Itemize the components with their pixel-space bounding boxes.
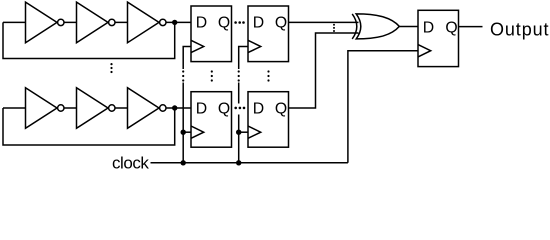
svg-text:Output: Output [490, 19, 549, 39]
inverter I5 [77, 88, 109, 129]
svg-text:D: D [423, 19, 434, 36]
svg-text:D: D [196, 15, 207, 32]
wire clock vertical 1 upper [183, 47, 191, 70]
wire clock main line [151, 162, 348, 164]
wire bottom-ring signal [3, 107, 191, 109]
xor gate U1 [352, 14, 357, 39]
wire clock vertical 2 upper [239, 47, 248, 70]
svg-text:Q: Q [218, 100, 230, 117]
svg-text:Q: Q [275, 15, 287, 32]
wire clock vertical 2 lower [238, 115, 240, 163]
ellipsis below FF1 [211, 70, 213, 72]
wire XOR output to FF5 D [399, 26, 418, 28]
ellipsis clock vertical 2 [238, 70, 240, 72]
svg-text:Q: Q [275, 100, 287, 117]
flip-flop FF5 box [418, 10, 459, 66]
svg-text:Q: Q [218, 15, 230, 32]
wire bottom-ring feedback [3, 108, 175, 145]
flip-flop FF3 box [191, 92, 232, 148]
clock wedge FF5 [418, 45, 431, 57]
wire top-ring signal [3, 21, 191, 23]
clock wedge FF2 [248, 40, 261, 52]
flip-flop FF2 box [248, 6, 289, 62]
svg-text:Q: Q [445, 19, 457, 36]
wire clock vertical 2 middle [238, 83, 240, 104]
junction dot clock stub FF3 [181, 130, 186, 135]
junction dot clock line 1 [181, 160, 186, 165]
wire top-ring feedback [3, 22, 175, 58]
junction dot top ring output [172, 20, 177, 25]
inverter I2 [77, 2, 109, 43]
junction dot clock line 2 [236, 160, 241, 165]
junction dot clock stub FF4 [236, 130, 241, 135]
wire clock vertical 1 lower [182, 83, 184, 163]
ellipsis top FF row [234, 21, 237, 24]
svg-text:D: D [253, 100, 264, 117]
wire FF2 Q to XOR top input [289, 21, 359, 23]
ellipsis clock vertical 1 [182, 70, 184, 72]
ellipsis below FF2 [267, 70, 269, 72]
flip-flop FF1 box [191, 6, 232, 62]
ellipsis between rings [110, 63, 112, 65]
svg-text:D: D [253, 15, 264, 32]
wire clock stub to FF4 [239, 131, 248, 133]
wire bottom FF4 Q to XOR bottom input [289, 33, 359, 108]
inverter I4 [26, 88, 58, 129]
svg-text:D: D [196, 100, 207, 117]
junction dot bottom ring output [172, 105, 177, 110]
clock wedge FF3 [191, 126, 204, 138]
flip-flop FF4 box [248, 92, 289, 148]
ellipsis bottom FF row [234, 107, 237, 110]
inverter I1 [26, 2, 58, 43]
inverter I6 [128, 88, 160, 129]
ellipsis XOR inputs [333, 24, 335, 26]
wire clock stub to FF3 [183, 131, 191, 133]
clock wedge FF1 [191, 40, 204, 52]
inverter I3 [128, 2, 160, 43]
svg-text:clock: clock [112, 153, 149, 172]
wire FF5 Q to Output [459, 26, 483, 28]
wire clock to FF5 [348, 51, 418, 163]
clock wedge FF4 [248, 126, 261, 138]
